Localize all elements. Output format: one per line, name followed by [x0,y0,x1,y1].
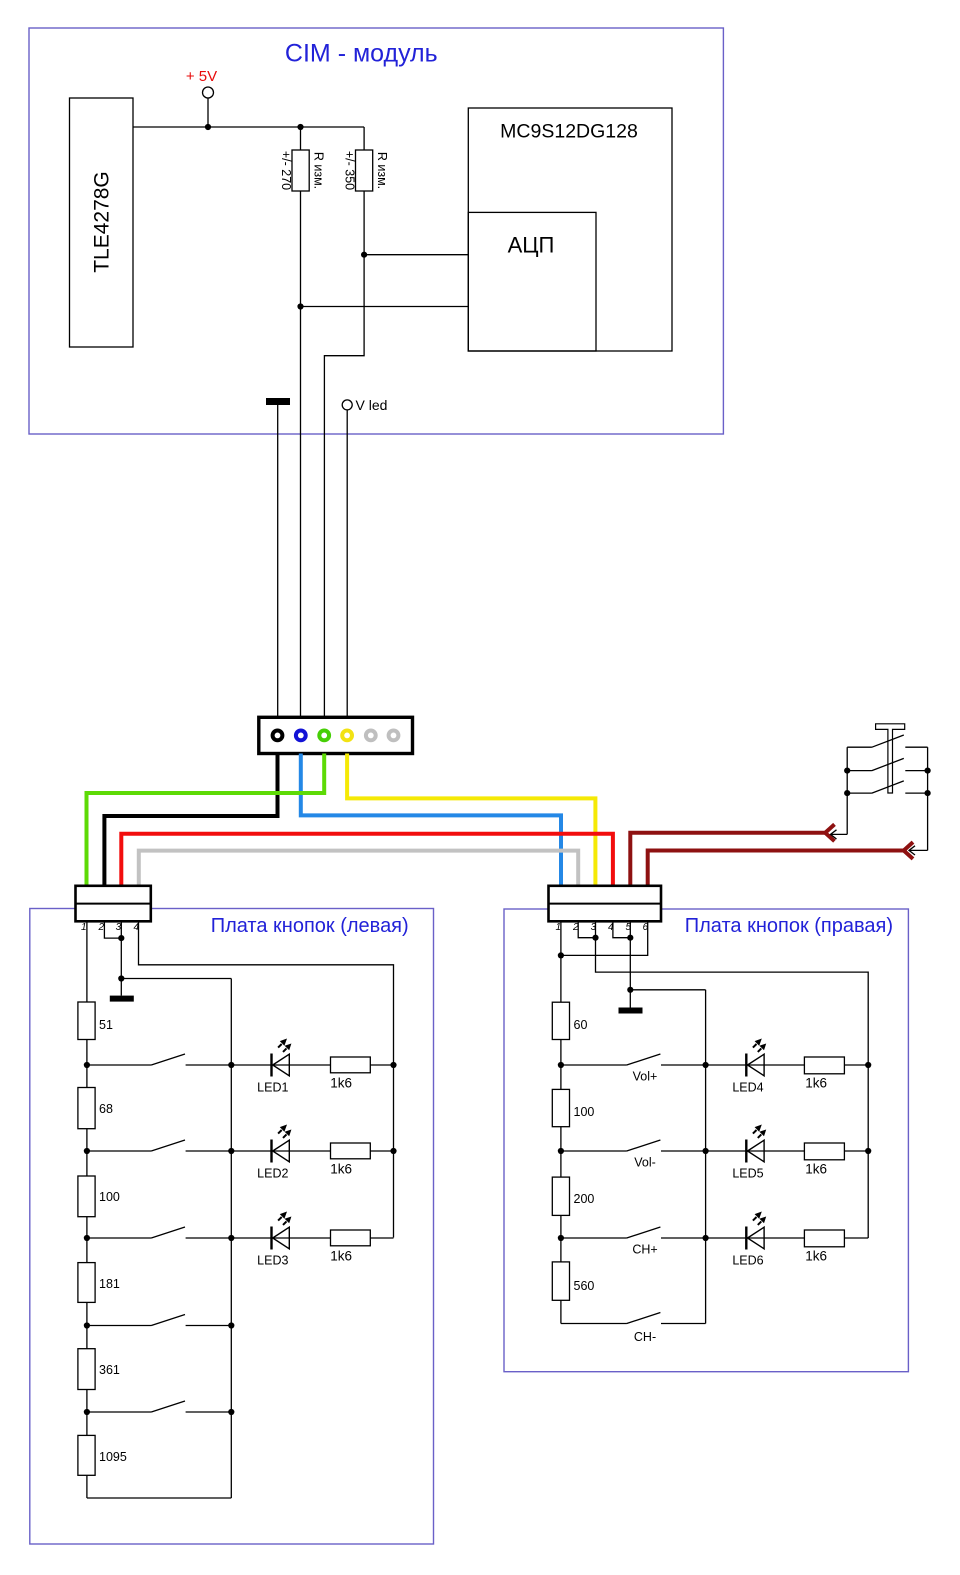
wire +5V to node [207,98,209,127]
svg-text:CIM - модуль: CIM - модуль [285,40,438,68]
node row4 rail [228,1322,234,1328]
wire row2 to LED5 [706,1150,805,1152]
V led terminal [342,400,352,410]
cathode rail (right) [705,990,707,1324]
svg-text:Плата кнопок (правая): Плата кнопок (правая) [685,915,893,937]
wire black harness [104,754,277,886]
resistor 100 [78,1176,120,1217]
node pin3 ground tap [118,975,124,981]
left board box [30,909,434,1545]
wire 1k6 row1 to rail right [844,1064,868,1066]
socket arrow thin 2 [909,846,928,855]
wire 1k6 row3 to rail right [844,1237,868,1239]
node row2 rail (right) [703,1148,709,1154]
wire X3 pin4 [613,922,630,938]
LED3 [270,1212,291,1250]
switch S1 left rail [846,747,848,834]
resistor 60 [552,1002,587,1039]
X2 pin numbers [81,922,140,933]
resistor 100 right [552,1089,594,1126]
svg-text:LED6: LED6 [732,1254,763,1268]
wire R2 bottom [324,191,364,717]
svg-text:100: 100 [574,1105,595,1119]
svg-text:361: 361 [99,1363,120,1377]
resistor R2 +/-350 [343,150,390,191]
node R2 to ADC [361,252,367,258]
node row1 anode rail right [865,1062,871,1068]
resistor 1k6 row2 right [804,1143,844,1177]
wire V led to connector [346,410,348,717]
svg-text:1: 1 [81,922,87,933]
svg-text:V led: V led [356,397,388,413]
switch S1 right rail [927,747,929,850]
X1 pin 2 ring blue [296,731,306,741]
X3 pin numbers [556,922,649,933]
resistor 1k6 row2 [330,1143,370,1177]
wire to cathode rail (right) [630,989,705,991]
connector X2 body [76,886,151,922]
svg-text:LED4: LED4 [732,1081,763,1095]
resistor 200 [552,1177,594,1215]
wire dark red 1 [630,833,826,886]
wire blue harness [301,754,561,886]
svg-text:LED1: LED1 [257,1081,288,1095]
node row1 rail (right) [703,1062,709,1068]
svg-text:CH-: CH- [634,1330,656,1344]
node row3 rail [228,1235,234,1241]
svg-text:200: 200 [574,1192,595,1206]
switch SB5 [87,1401,231,1412]
node pin2-pin3 [592,935,598,941]
resistor 181 [78,1263,120,1303]
resistor 1k6 row1 right [804,1057,844,1091]
switch S1 contact 2 [847,758,927,770]
resistor 1k6 row3 right [804,1230,844,1264]
node at +5V junction [205,124,211,130]
wire X2 pin4 to anode rail [139,922,394,1238]
node row3 chain [84,1235,90,1241]
svg-text:+/- 350: +/- 350 [343,151,357,190]
ADC block [468,212,596,351]
node S1 right bottom [925,790,931,796]
node R1 to ADC [297,303,303,309]
wire ground to connector [277,405,279,717]
wire ADC input 2 [301,306,469,308]
node row2 anode rail right [865,1148,871,1154]
resistor 1095 [78,1435,127,1475]
MCU MC9S12DG128 [468,108,672,351]
switch SB2 [87,1140,231,1151]
svg-text:1095: 1095 [99,1450,127,1464]
resistor 1k6 row3 [330,1230,370,1264]
X1 pin 3 ring green [319,731,329,741]
svg-text:LED3: LED3 [257,1254,288,1268]
wire TLE4278G output rail [133,126,364,128]
svg-text:100: 100 [99,1190,120,1204]
+5V terminal [203,87,214,98]
wire X2 pin2 [104,922,121,939]
wire chain bottom loop [87,1497,231,1499]
svg-text:2: 2 [98,922,105,933]
wire row3 to LED6 [706,1237,805,1239]
X1 pin 5 ring gray [366,731,376,741]
node S1 right mid [925,768,931,774]
node row1 chain (right) [558,1062,564,1068]
connector X1 body [259,717,413,753]
X1 pin 4 ring yellow [342,731,352,741]
wire 1k6 row1 to rail [370,1064,393,1066]
resistor 68 [78,1088,113,1129]
wire row2 to LED2 [231,1150,330,1152]
wire X3 pin5 [629,922,631,1008]
wire ADC input 1 [364,254,468,256]
svg-text:Vol-: Vol- [634,1156,656,1170]
CIM module box [29,28,723,434]
node row1 rail [228,1062,234,1068]
svg-text:Плата кнопок (левая): Плата кнопок (левая) [211,915,409,937]
svg-text:51: 51 [99,1018,113,1032]
svg-text:+/- 270: +/- 270 [279,151,293,190]
wire row1 to LED1 [231,1064,330,1066]
wire X3 pin2 [578,922,595,938]
node pin1-pin6 [558,952,564,958]
switch SB1 [87,1054,231,1065]
node row1 chain [84,1062,90,1068]
svg-text:1k6: 1k6 [330,1249,352,1264]
node row1 anode rail [390,1062,396,1068]
wire red harness [121,834,613,886]
node S1 left mid [844,768,850,774]
node row3 rail (right) [703,1235,709,1241]
node row4 chain [84,1322,90,1328]
LED4 [745,1039,766,1077]
node row5 chain [84,1409,90,1415]
resistor 1k6 row1 [330,1057,370,1091]
svg-text:+ 5V: + 5V [186,68,217,85]
switch Vol- [561,1140,706,1151]
LED2 [270,1125,291,1163]
node row2 chain [84,1148,90,1154]
wire R1 top [300,127,302,150]
svg-text:1: 1 [556,922,562,933]
node pin2-pin3 [118,935,124,941]
switch S1 contact 3 [847,781,927,793]
wire R2 top [363,127,365,150]
node row5 rail [228,1409,234,1415]
wire 1k6 row3 to rail [370,1237,393,1239]
wire X2 pin1 to chain [86,922,88,1499]
node row3 chain (right) [558,1235,564,1241]
node S1 left bottom [844,790,850,796]
switch SB4 [87,1315,231,1326]
wire green harness [87,754,325,886]
svg-text:68: 68 [99,1102,113,1116]
resistor R1 +/-270 [279,150,326,191]
X1 pin 1 ring black [273,731,283,741]
resistor 361 [78,1349,120,1390]
svg-text:181: 181 [99,1277,120,1291]
X1 pin 6 ring gray [389,731,399,741]
ground (CIM) [266,398,290,405]
cathode rail (left) [230,979,232,1499]
switch CH+ [561,1227,706,1238]
switch Vol+ [561,1054,706,1065]
wire dark red 2 [648,851,905,886]
wire X3 pin3 to anode rail [596,922,869,1239]
svg-text:Vol+: Vol+ [633,1070,658,1084]
wire X2 pin3 [120,922,122,996]
wire 1k6 row2 to rail [370,1150,393,1152]
node row2 anode rail [390,1148,396,1154]
svg-text:LED2: LED2 [257,1167,288,1181]
switch S1 contact 1 [847,735,927,747]
switch S1 plunger [876,724,905,793]
svg-text:560: 560 [574,1279,595,1293]
LED6 [745,1212,766,1250]
ground (left board) [110,996,134,1002]
wire X3 pin1 to chain [560,922,562,1324]
svg-text:CH+: CH+ [632,1243,657,1257]
resistor 51 [78,1002,113,1040]
plug arrow dark red 1 [825,824,834,841]
svg-text:LED5: LED5 [732,1167,763,1181]
wire row1 to LED4 [706,1064,805,1066]
svg-text:АЦП: АЦП [508,233,555,258]
wire X3 pin6 [561,922,648,956]
ground (right board) [619,1008,643,1014]
node pin5 ground tap [627,987,633,993]
connector X3 body [549,886,662,922]
IC TLE4278G [70,98,134,347]
LED5 [745,1125,766,1163]
svg-text:1k6: 1k6 [805,1162,827,1177]
wire R1 bottom to ADC [300,191,302,717]
svg-text:R изм.: R изм. [375,152,389,189]
svg-text:1k6: 1k6 [805,1249,827,1264]
svg-text:1k6: 1k6 [330,1162,352,1177]
node row2 chain (right) [558,1148,564,1154]
wire to cathode rail [121,978,231,980]
svg-text:R изм.: R изм. [312,152,326,189]
wire gray harness [139,851,578,886]
wire row3 to LED3 [231,1237,330,1239]
node at R1 top [297,124,303,130]
resistor 560 [552,1262,594,1300]
socket arrow thin 1 [831,830,848,839]
svg-text:1k6: 1k6 [330,1076,352,1091]
svg-text:MC9S12DG128: MC9S12DG128 [500,120,638,142]
svg-text:1k6: 1k6 [805,1076,827,1091]
right board box [504,909,908,1372]
node row2 rail [228,1148,234,1154]
svg-text:TLE4278G: TLE4278G [91,171,114,273]
switch SB3 [87,1227,231,1238]
wire yellow harness [347,754,595,886]
plug arrow dark red 2 [904,842,913,859]
LED1 [270,1039,291,1077]
switch CH- [561,1313,706,1324]
wire 1k6 row2 to rail right [844,1150,868,1152]
svg-text:60: 60 [574,1018,588,1032]
node pin4-pin5 [627,935,633,941]
